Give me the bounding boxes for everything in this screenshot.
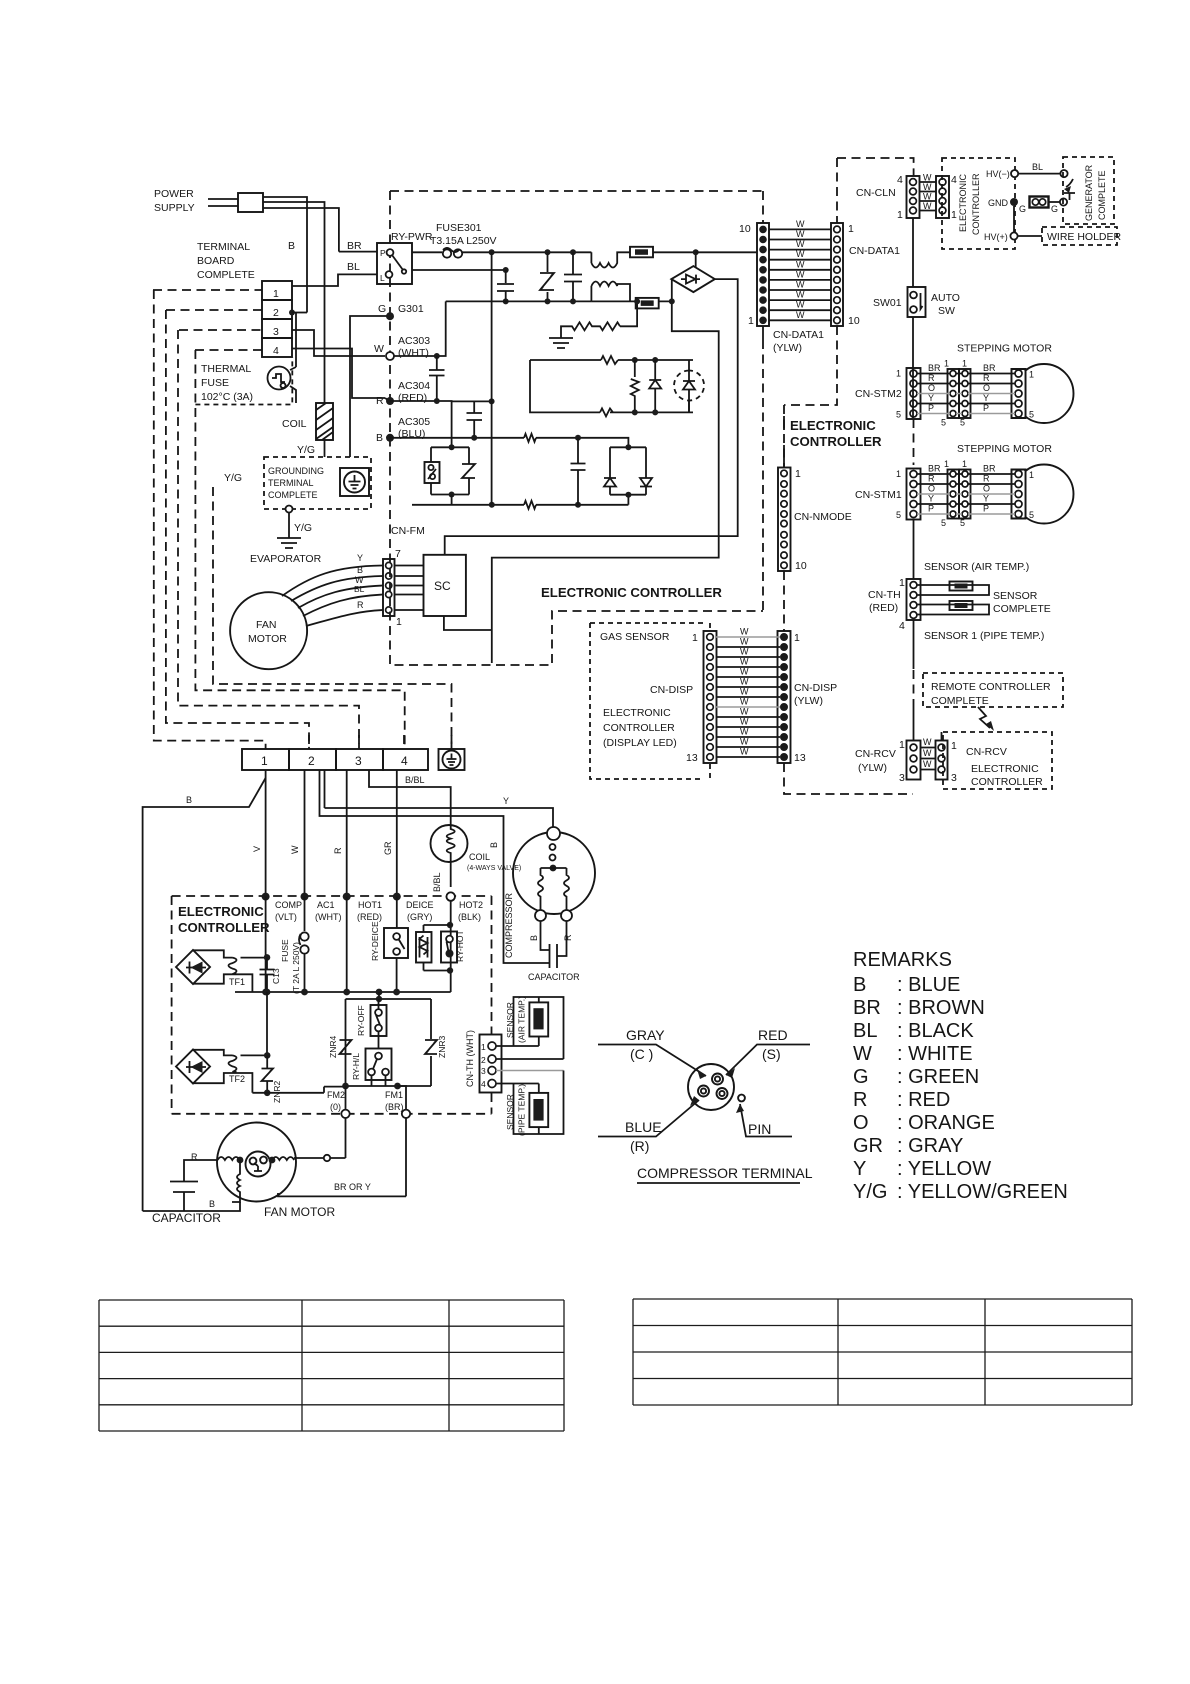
svg-text:1: 1 bbox=[273, 288, 279, 300]
wire GND down bbox=[1013, 206, 1015, 232]
svg-text:G: G bbox=[1019, 204, 1026, 214]
wire row2 down to fuse bbox=[290, 313, 296, 404]
wire fuse2 tee down bbox=[492, 301, 719, 630]
fan motor upper circle bbox=[230, 592, 307, 669]
node DEICE bbox=[393, 893, 401, 901]
svg-text:(DISPLAY LED): (DISPLAY LED) bbox=[603, 737, 677, 749]
bus main lower bbox=[235, 991, 451, 993]
node grounding bottom bbox=[286, 506, 293, 513]
wire BR to RY-PWR bbox=[339, 251, 377, 253]
svg-text:BL: BL bbox=[1032, 162, 1043, 172]
svg-text:R: R bbox=[376, 395, 384, 407]
svg-text:2: 2 bbox=[308, 754, 315, 768]
svg-text:B: B bbox=[186, 795, 192, 805]
svg-text:R: R bbox=[357, 600, 364, 610]
svg-text:O: O bbox=[983, 484, 990, 494]
svg-text:B: B bbox=[376, 432, 383, 444]
svg-text:1: 1 bbox=[962, 359, 967, 369]
svg-text:ELECTRONIC: ELECTRONIC bbox=[790, 418, 876, 433]
svg-text:GROUNDING: GROUNDING bbox=[268, 466, 324, 476]
dashed stub row3 bbox=[179, 329, 262, 331]
compressor circle bbox=[513, 832, 595, 914]
connector CN-DATA1 left strip bbox=[757, 223, 769, 326]
earth ground power bbox=[549, 338, 573, 348]
svg-text:BR: BR bbox=[983, 464, 996, 474]
TF2 wiring + coil bbox=[193, 1050, 267, 1093]
wire R to capacitor bbox=[184, 1160, 218, 1181]
svg-text:ELECTRONIC: ELECTRONIC bbox=[958, 173, 968, 232]
wire plug to B vertical bbox=[263, 197, 339, 403]
svg-text:(RED): (RED) bbox=[398, 392, 427, 404]
wire G301 to grounding bbox=[350, 316, 390, 457]
svg-text:ZNR3: ZNR3 bbox=[437, 1036, 447, 1058]
svg-text:FUSE301: FUSE301 bbox=[436, 222, 482, 234]
wire AC1 down with fuse bbox=[304, 897, 306, 931]
svg-text:AUTO: AUTO bbox=[931, 292, 960, 304]
svg-text:COMPRESSOR: COMPRESSOR bbox=[504, 892, 514, 958]
wire C13 down to ZNR2 node bbox=[266, 992, 268, 1055]
wire gray lead bbox=[598, 1045, 706, 1077]
svg-text:ZNR2: ZNR2 bbox=[272, 1081, 282, 1103]
wire to earth ground bbox=[288, 513, 290, 539]
svg-text:10: 10 bbox=[848, 315, 860, 327]
svg-text:SENSOR: SENSOR bbox=[993, 590, 1038, 602]
svg-text:B/BL: B/BL bbox=[432, 872, 442, 892]
relay RY-H/L bbox=[366, 1049, 392, 1081]
svg-text:(RED): (RED) bbox=[869, 602, 898, 614]
svg-text:GND: GND bbox=[988, 198, 1009, 208]
svg-text:EVAPORATOR: EVAPORATOR bbox=[250, 553, 322, 565]
table left bbox=[99, 1300, 564, 1431]
wire row3 to W node bbox=[292, 330, 385, 356]
wire blue lead bbox=[598, 1100, 699, 1137]
connector CN-DISP right strip bbox=[778, 631, 791, 763]
svg-text:Y: Y bbox=[983, 393, 989, 403]
earth ground bbox=[277, 538, 301, 548]
svg-text:W: W bbox=[740, 637, 749, 647]
node HOT2 open bbox=[447, 892, 455, 900]
svg-text:(YLW): (YLW) bbox=[773, 342, 802, 354]
capacitor W-R bbox=[429, 356, 445, 401]
svg-text:BR OR Y: BR OR Y bbox=[334, 1182, 371, 1192]
sub network rails bbox=[346, 992, 432, 1086]
svg-text:1: 1 bbox=[1029, 470, 1034, 480]
svg-text:4: 4 bbox=[899, 620, 905, 632]
svg-text:STEPPING MOTOR: STEPPING MOTOR bbox=[957, 443, 1052, 455]
varistor ZNR4 bbox=[340, 1040, 352, 1054]
relay RY-DEICE bbox=[384, 928, 408, 958]
relay RY-PWR bbox=[377, 243, 412, 284]
svg-text:G: G bbox=[378, 303, 386, 315]
svg-text:W: W bbox=[740, 687, 749, 697]
wire pin lead bbox=[740, 1104, 792, 1137]
svg-text:3: 3 bbox=[899, 772, 905, 784]
svg-text:: RED: : RED bbox=[897, 1089, 950, 1111]
svg-text:W: W bbox=[923, 182, 932, 192]
svg-text:: BLACK: : BLACK bbox=[897, 1020, 974, 1042]
svg-text:STEPPING MOTOR: STEPPING MOTOR bbox=[957, 343, 1052, 355]
compressor top terminal bbox=[547, 827, 560, 840]
capacitor mid bbox=[564, 252, 582, 301]
motor circle bbox=[1015, 364, 1074, 423]
svg-text:: YELLOW/GREEN: : YELLOW/GREEN bbox=[897, 1181, 1068, 1203]
wire L to cap bbox=[412, 269, 506, 271]
wire motor to FM2 bbox=[294, 1118, 346, 1158]
svg-text:1: 1 bbox=[944, 359, 949, 369]
svg-text:CONTROLLER: CONTROLLER bbox=[971, 173, 981, 235]
node COMP bbox=[262, 893, 270, 901]
svg-text:10: 10 bbox=[795, 560, 807, 572]
svg-text:P: P bbox=[983, 504, 989, 514]
svg-text:BR: BR bbox=[928, 464, 941, 474]
sensor bar 2 bbox=[917, 605, 989, 615]
wire to CN-RCV bbox=[913, 705, 915, 741]
wire CN-RCV top stub bbox=[941, 732, 943, 741]
SC box bbox=[424, 555, 466, 616]
svg-text:P: P bbox=[928, 504, 934, 514]
dashed left path 3 bbox=[178, 330, 359, 749]
wire stm1 down to CN-TH bbox=[913, 519, 915, 579]
varistor Z2 bbox=[462, 464, 475, 478]
svg-text:O: O bbox=[853, 1112, 869, 1134]
wire HOT2 down bbox=[450, 901, 452, 992]
wire FM1 down bbox=[398, 1086, 407, 1110]
node row2 bbox=[289, 310, 295, 316]
svg-text:CONTROLLER: CONTROLLER bbox=[971, 776, 1043, 788]
svg-text:1: 1 bbox=[962, 459, 967, 469]
svg-text:SC: SC bbox=[434, 579, 451, 593]
svg-text:5: 5 bbox=[896, 410, 901, 420]
svg-text:Y: Y bbox=[357, 553, 363, 563]
table right bbox=[633, 1299, 1132, 1405]
wire red lead bbox=[726, 1045, 810, 1076]
svg-text:W: W bbox=[796, 229, 805, 239]
wire HV+ to wire holder bbox=[1018, 235, 1042, 237]
svg-text:COIL: COIL bbox=[282, 418, 307, 430]
fuse rect bottom bbox=[591, 300, 635, 302]
svg-text:4: 4 bbox=[273, 345, 279, 357]
wire capacitor bottom B bbox=[143, 1202, 240, 1211]
connector CN-CLN right bbox=[936, 176, 949, 218]
svg-text:CN-DATA1: CN-DATA1 bbox=[773, 329, 824, 341]
connector CN-STM2 middle strips bbox=[948, 369, 960, 418]
svg-text:1: 1 bbox=[899, 577, 905, 589]
wire cell1 diagonal to B bbox=[143, 778, 266, 1211]
svg-text:GRAY: GRAY bbox=[626, 1027, 665, 1043]
svg-text:SENSOR (AIR TEMP.): SENSOR (AIR TEMP.) bbox=[924, 561, 1029, 573]
connector CN-DATA1 right strip bbox=[831, 223, 843, 326]
svg-text:(VLT): (VLT) bbox=[275, 912, 297, 922]
svg-text:HOT1: HOT1 bbox=[358, 900, 382, 910]
sensor bar 1 bbox=[917, 585, 989, 595]
remote controller complete dashed box bbox=[923, 673, 1063, 707]
wires CN-CLN bbox=[920, 182, 936, 211]
node HOT2 repaint bbox=[447, 892, 455, 900]
wire R to relay box bbox=[390, 401, 452, 447]
wire HV- to generator bbox=[1018, 173, 1060, 175]
svg-text:3: 3 bbox=[355, 754, 362, 768]
resistor bottom row bbox=[524, 501, 536, 509]
resistor B row bbox=[524, 434, 536, 442]
svg-text:W: W bbox=[796, 280, 805, 290]
svg-text:CONTROLLER: CONTROLLER bbox=[603, 722, 675, 734]
svg-text:Y: Y bbox=[503, 796, 509, 806]
svg-text:COMPLETE: COMPLETE bbox=[268, 490, 318, 500]
svg-text:1: 1 bbox=[481, 1042, 486, 1052]
wire smps row2 bbox=[530, 360, 693, 412]
svg-text:W: W bbox=[796, 239, 805, 249]
svg-text:O: O bbox=[983, 383, 990, 393]
svg-text:1: 1 bbox=[944, 459, 949, 469]
svg-text:Y/G: Y/G bbox=[294, 522, 312, 534]
svg-text:W: W bbox=[740, 667, 749, 677]
svg-text:TF2: TF2 bbox=[229, 1074, 245, 1084]
diode pair box bbox=[610, 447, 646, 505]
svg-text:1: 1 bbox=[1029, 370, 1034, 380]
svg-text:RY-DEICE: RY-DEICE bbox=[370, 921, 380, 961]
svg-text:SUPPLY: SUPPLY bbox=[154, 202, 195, 214]
svg-text:W: W bbox=[923, 737, 932, 747]
svg-text:(AIR TEMP.): (AIR TEMP.) bbox=[517, 996, 527, 1043]
svg-text:(GRY): (GRY) bbox=[407, 912, 432, 922]
svg-text:GENERATOR: GENERATOR bbox=[1084, 164, 1094, 221]
svg-text:1: 1 bbox=[951, 740, 957, 752]
node main rail junctions bbox=[489, 249, 495, 255]
wire stm2 left vertical bbox=[912, 369, 914, 418]
coil hatched rect bbox=[316, 403, 333, 440]
svg-text:ELECTRONIC: ELECTRONIC bbox=[178, 904, 264, 919]
wire W to rail bbox=[394, 301, 446, 356]
svg-text:RY-H/L: RY-H/L bbox=[351, 1053, 361, 1080]
svg-text:P: P bbox=[983, 403, 989, 413]
generator arrow symbol bbox=[1066, 179, 1073, 187]
svg-text:W: W bbox=[740, 717, 749, 727]
thermal fuse circle bbox=[268, 367, 291, 390]
svg-text:ELECTRONIC: ELECTRONIC bbox=[603, 707, 671, 719]
generator complete dashed box bbox=[1063, 157, 1114, 224]
svg-text:PIN: PIN bbox=[748, 1121, 771, 1137]
svg-text:L: L bbox=[380, 273, 385, 283]
svg-text:Y: Y bbox=[928, 494, 934, 504]
svg-text:SENSOR: SENSOR bbox=[505, 1094, 515, 1130]
svg-text:CN-FM: CN-FM bbox=[391, 525, 425, 537]
svg-text:POWER: POWER bbox=[154, 188, 194, 200]
connector CN-FM bbox=[383, 559, 395, 616]
svg-text:1: 1 bbox=[794, 632, 800, 644]
svg-text:W: W bbox=[740, 747, 749, 757]
capacitor small left bbox=[497, 270, 514, 301]
diode left up bbox=[604, 478, 616, 487]
relay RY-HOT bbox=[441, 932, 457, 963]
svg-text:1: 1 bbox=[848, 223, 854, 235]
svg-text:AC304: AC304 bbox=[398, 380, 430, 392]
wires CN-DISP bbox=[716, 636, 780, 638]
left winding bbox=[218, 1157, 240, 1160]
wire cell2 Y path bbox=[325, 770, 554, 827]
svg-text:W: W bbox=[796, 259, 805, 269]
diode right down bbox=[640, 478, 652, 487]
svg-text:Y/G: Y/G bbox=[297, 444, 315, 456]
connector CN-RCV right bbox=[936, 741, 948, 780]
wire relay box bottom bbox=[412, 495, 628, 505]
svg-text:2: 2 bbox=[273, 307, 279, 319]
photo diode dashed circle bbox=[674, 371, 704, 401]
thermal protector TF1 bbox=[176, 950, 210, 984]
svg-text:COMPLETE: COMPLETE bbox=[1097, 170, 1107, 220]
svg-text:TERMINAL: TERMINAL bbox=[197, 241, 250, 253]
svg-text:P: P bbox=[380, 248, 386, 258]
node GND bbox=[1010, 198, 1018, 206]
thermistor pipe temp bbox=[529, 1093, 548, 1127]
svg-text:R: R bbox=[563, 934, 573, 941]
connector CN-RCV left bbox=[907, 741, 921, 780]
connector CN-STM2 left strip bbox=[907, 368, 921, 419]
svg-text:B: B bbox=[489, 842, 499, 848]
wire SW01 down bbox=[912, 317, 914, 369]
svg-text:: GREEN: : GREEN bbox=[897, 1066, 979, 1088]
svg-text:R: R bbox=[928, 474, 935, 484]
svg-text:5: 5 bbox=[1029, 410, 1034, 420]
wire motor to FM1 BR OR Y bbox=[278, 1118, 406, 1196]
wire CN-NMODE stubs bbox=[783, 416, 785, 468]
gas sensor dashed box bbox=[590, 623, 710, 779]
connector CN-STM1 middle strips bbox=[948, 470, 960, 519]
compressor bottom terminals bbox=[535, 910, 546, 921]
wire FM2 down bbox=[345, 1086, 347, 1110]
wire CN-TH down bbox=[913, 620, 915, 669]
svg-text:COMPLETE: COMPLETE bbox=[931, 695, 989, 707]
svg-text:W: W bbox=[740, 727, 749, 737]
svg-text:5: 5 bbox=[941, 518, 946, 528]
svg-text:BL: BL bbox=[354, 584, 365, 594]
svg-text:SENSOR 1 (PIPE TEMP.): SENSOR 1 (PIPE TEMP.) bbox=[924, 630, 1044, 642]
svg-text:5: 5 bbox=[896, 510, 901, 520]
compressor terminal circle bbox=[688, 1064, 734, 1110]
svg-text:GAS SENSOR: GAS SENSOR bbox=[600, 631, 670, 643]
svg-text:W: W bbox=[796, 269, 805, 279]
wire to gen circle bbox=[1049, 201, 1061, 203]
svg-text:BOARD: BOARD bbox=[197, 255, 235, 267]
wire RY-DEICE down bbox=[396, 958, 398, 992]
svg-text:AC303: AC303 bbox=[398, 335, 430, 347]
wire rail to CN-DATA bbox=[696, 251, 757, 253]
svg-text:T3.15A L250V: T3.15A L250V bbox=[430, 235, 497, 247]
dashed stub row1 bbox=[153, 289, 262, 291]
wire B row bbox=[390, 438, 628, 448]
svg-text:1: 1 bbox=[899, 739, 905, 751]
node HV- bbox=[1011, 170, 1018, 177]
wire ground resistor chain bbox=[620, 301, 637, 326]
dashed between stm bbox=[913, 419, 915, 465]
dashed left path 1 bbox=[154, 290, 266, 749]
svg-text:Y/G: Y/G bbox=[853, 1181, 887, 1203]
svg-text:W: W bbox=[923, 201, 932, 211]
svg-text:FUSE: FUSE bbox=[280, 939, 290, 962]
svg-text:BL: BL bbox=[853, 1020, 877, 1042]
svg-text:R: R bbox=[333, 847, 343, 854]
svg-text:P: P bbox=[928, 403, 934, 413]
svg-text:1: 1 bbox=[795, 468, 801, 480]
svg-text:102°C (3A): 102°C (3A) bbox=[201, 391, 253, 403]
svg-text:(0): (0) bbox=[330, 1102, 341, 1112]
wire bridge right down bbox=[445, 279, 738, 555]
svg-text:TERMINAL: TERMINAL bbox=[268, 478, 314, 488]
bridge rectifier bbox=[671, 266, 714, 292]
dashed Y/G path bbox=[213, 487, 452, 749]
svg-text:: WHITE: : WHITE bbox=[897, 1043, 973, 1065]
svg-text:W: W bbox=[923, 748, 932, 758]
svg-text:REMOTE CONTROLLER: REMOTE CONTROLLER bbox=[931, 681, 1051, 693]
svg-text:R: R bbox=[853, 1089, 867, 1111]
sensor air temp loop bbox=[496, 997, 564, 1059]
wire mid vertical bbox=[491, 252, 493, 504]
svg-text:R: R bbox=[983, 474, 990, 484]
varistor ZNR3 bbox=[425, 1040, 437, 1054]
svg-text:BR: BR bbox=[928, 363, 941, 373]
thermistor air temp bbox=[529, 1002, 548, 1036]
right box dashed outline bbox=[784, 158, 914, 794]
dashed stub row2 bbox=[166, 309, 262, 311]
svg-text:W: W bbox=[796, 310, 805, 320]
capacitor smps bbox=[571, 438, 586, 505]
svg-text:W: W bbox=[853, 1043, 872, 1065]
svg-text:W: W bbox=[740, 647, 749, 657]
dashed segment below bbox=[913, 670, 915, 705]
diode vertical bbox=[649, 360, 661, 412]
svg-text:: BLUE: : BLUE bbox=[897, 974, 960, 996]
fuse FUSE301 bbox=[412, 251, 442, 253]
svg-text:BR: BR bbox=[853, 997, 881, 1019]
wire cell3 down HOT1 bbox=[346, 770, 348, 897]
wire below CN-DATA1 bbox=[762, 326, 764, 340]
defrost heater bbox=[424, 925, 451, 971]
svg-text:FM2: FM2 bbox=[327, 1090, 345, 1100]
left winding vertical bbox=[232, 1160, 240, 1202]
resistor vertical bbox=[631, 360, 639, 412]
svg-text:COMPLETE: COMPLETE bbox=[197, 269, 255, 281]
svg-text:COMP: COMP bbox=[275, 900, 302, 910]
svg-text:GR: GR bbox=[853, 1135, 883, 1157]
svg-text:1: 1 bbox=[896, 469, 901, 479]
wire DEICE down to RY-DEICE bbox=[396, 897, 398, 928]
svg-text:13: 13 bbox=[686, 752, 698, 764]
wire CN-CLN down to SW01 bbox=[912, 218, 914, 287]
wire second rail bbox=[446, 300, 592, 302]
svg-text:: ORANGE: : ORANGE bbox=[897, 1112, 995, 1134]
svg-text:AC1: AC1 bbox=[317, 900, 335, 910]
svg-text:CAPACITOR: CAPACITOR bbox=[528, 972, 580, 982]
dashed left path 2 bbox=[166, 310, 309, 749]
svg-text:W: W bbox=[740, 627, 749, 637]
svg-text:B: B bbox=[357, 565, 363, 575]
fan motor lower circle bbox=[217, 1123, 296, 1202]
electronic controller small dashed box bbox=[942, 158, 1015, 249]
resistor row2 bbox=[601, 356, 618, 364]
svg-text:1: 1 bbox=[951, 209, 957, 221]
svg-text:(R): (R) bbox=[630, 1138, 649, 1154]
sensor pipe temp loop bbox=[496, 1070, 564, 1072]
svg-text:(YLW): (YLW) bbox=[794, 695, 823, 707]
svg-text:B: B bbox=[853, 974, 866, 996]
svg-text:RY-HOT: RY-HOT bbox=[455, 930, 465, 962]
svg-text:CN-STM1: CN-STM1 bbox=[855, 489, 902, 501]
svg-text:CN-NMODE: CN-NMODE bbox=[794, 511, 852, 523]
svg-text:W: W bbox=[923, 759, 932, 769]
wire holder dashed box bbox=[1042, 227, 1117, 245]
fan motor inner hub bbox=[246, 1152, 271, 1177]
svg-text:: GRAY: : GRAY bbox=[897, 1135, 963, 1157]
wire main top rail bbox=[462, 251, 591, 253]
